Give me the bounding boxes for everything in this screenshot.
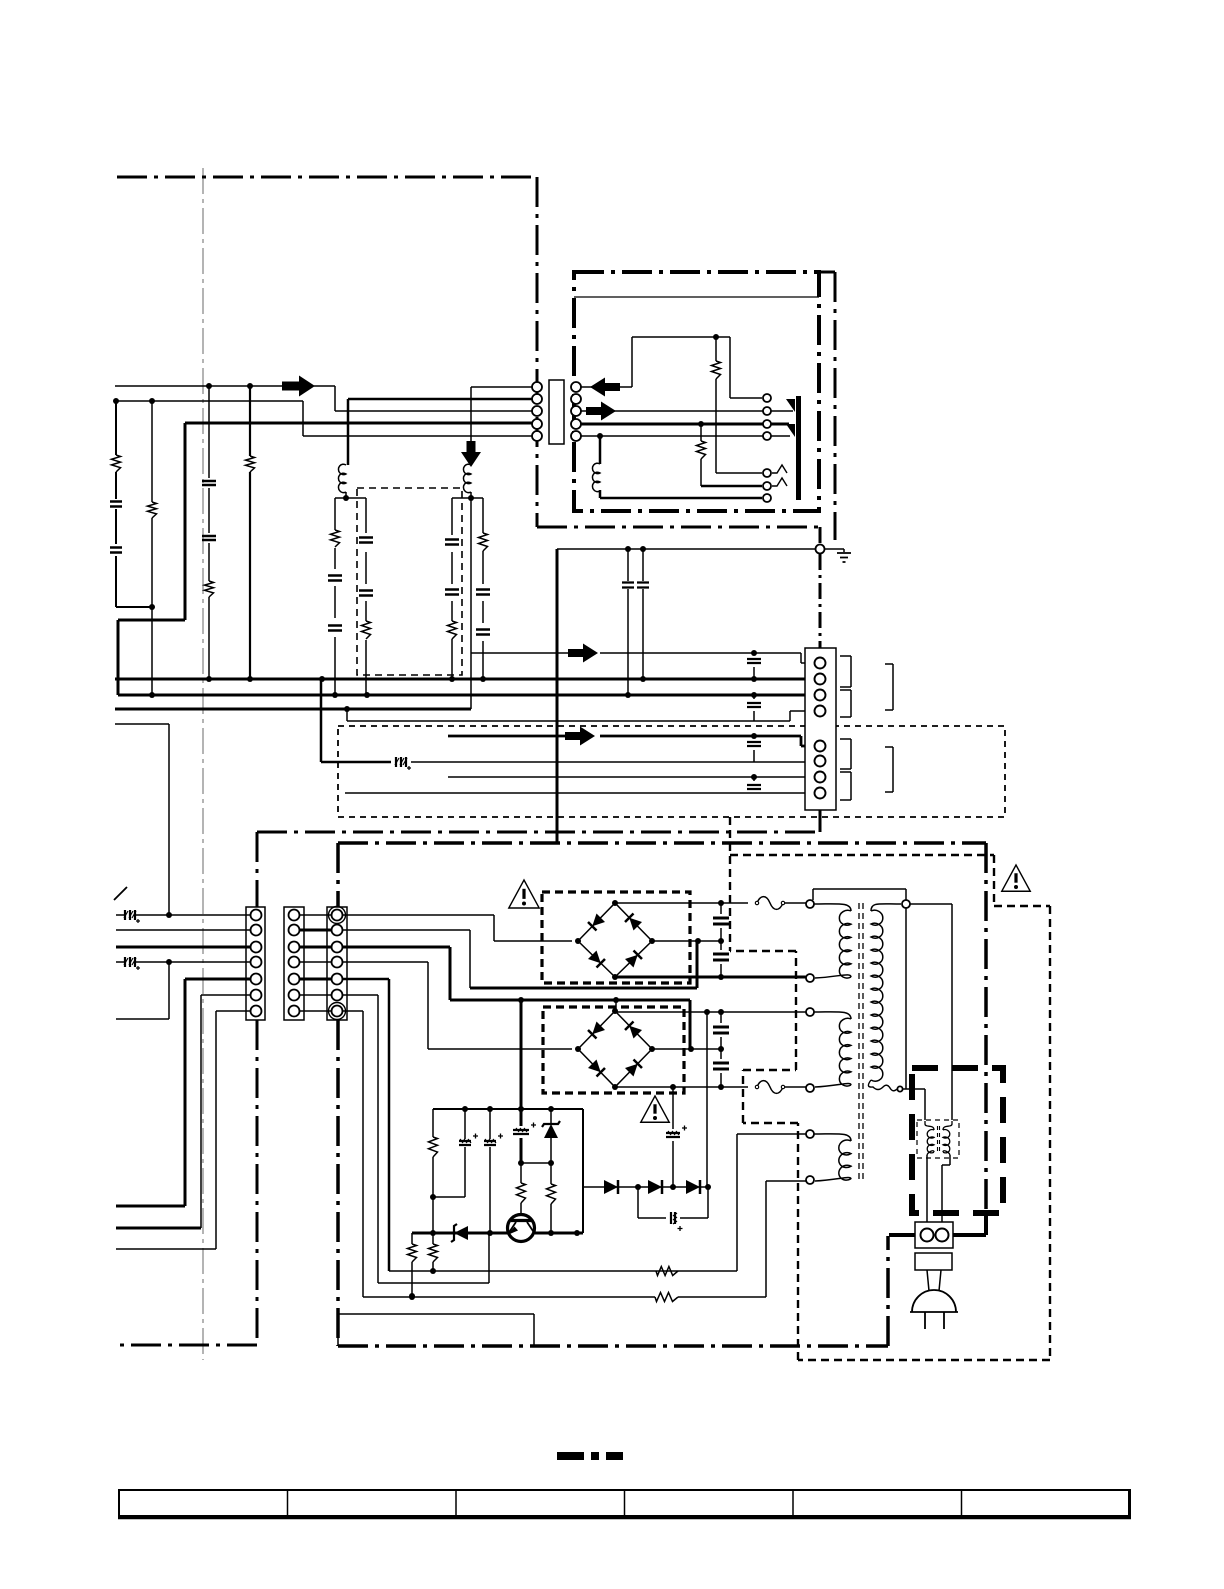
row1271 resistor [656,1267,678,1276]
smoothing cap C1b [713,954,729,960]
reg cap C4 [484,1141,496,1145]
filter2 inductor L2 [463,464,471,492]
reg emitter resistor [547,1184,556,1204]
transistor Q1 [508,1215,535,1242]
bridge1 diode TR [625,914,642,931]
bridge1 diode BL [588,951,605,968]
primary3 winding [814,1134,851,1141]
secondary to isolation transformer [906,1089,925,1121]
primary1 terminals [806,900,814,908]
row A coupling cap [747,659,761,663]
mid rail dots [430,1230,436,1236]
rail junction dots [462,1106,468,1112]
cap C1 dots [718,900,724,906]
aux feed x707 [706,1012,708,1187]
power board inner dash-dot border [338,843,986,1346]
dashed interconnect pipe [730,817,1050,1360]
smoothing cap C1 wire [720,903,722,977]
secondary return wire [897,908,906,1089]
main board outer dash-dot border [116,832,820,1345]
bottom tongue wire [338,1314,534,1345]
reg lower resistor RB wire [432,1233,434,1271]
bus C y695 thick [118,694,814,697]
secondary winding [871,904,901,911]
bridge1 fuse F1 [757,897,783,910]
tuner header line [574,296,819,298]
diode D3 [686,1180,700,1194]
smoothing cap C1a [713,918,729,924]
reg junction [430,1194,436,1200]
reg resistor R1 [429,1137,438,1157]
filter1 junction [343,495,349,501]
CN2 bracket pins7-8 [840,772,851,800]
row D coupling cap [747,703,761,707]
tuner row pin4 thick [581,423,789,426]
jack open contacts [763,394,771,402]
capacitor 2 on x116 [110,548,122,553]
plug dome [910,1290,958,1312]
filter1 cap left2 [328,626,342,631]
AC connector left lead thick [889,1233,915,1237]
row A wire [471,653,814,663]
bridge1 + output row [615,902,748,904]
smoothing cap C2b [713,1063,729,1069]
row G wire [448,776,814,778]
row F wire [321,679,391,762]
top-right block inner dash-dot box [574,272,819,511]
CN4-CN5 links [300,915,331,1011]
left feed row5 wire thick [116,979,250,1206]
row4 junction [166,959,172,965]
CN1 left pins [532,382,542,392]
bridge2 diamond [578,1011,652,1087]
capacitor 2 on x209 [202,536,216,540]
left feed row3 wire thick [116,946,250,949]
mid rail zener ZD2 [454,1226,468,1240]
dash-dot drop to earth node [819,527,822,648]
row E junction [751,733,757,739]
bus B junction dots [206,676,212,682]
inter-board connector CN1 body [549,380,564,444]
feedback row y1297 [363,1181,806,1297]
diode rail dots [635,1184,641,1190]
filter2 cap left1 [445,540,459,545]
reg cap C3 [459,1141,471,1145]
cap drop x643 [642,549,644,679]
filter2 junction [468,495,474,501]
tuner loop wire [581,337,762,398]
switch lever [114,887,127,900]
filter2 resistor left [448,621,457,639]
reg resistor R1 wire [432,1109,434,1233]
AC connector body [915,1222,953,1248]
CN2 bracket pins3-4 [840,690,851,717]
bridge1 diode BR [625,951,642,968]
spring contact upper [772,465,787,473]
filter1 wire [335,492,366,695]
bridge2 dashed box [543,1007,684,1093]
CN2 bottom lead [819,810,822,832]
flow arrow left pin1 [590,378,620,397]
CN3 pins [251,910,262,921]
tuner resistor R-a wire [716,337,762,473]
row E wire thick [448,736,814,746]
thick drop wire x557 [556,549,559,843]
harness bracket lower [885,747,893,792]
filter1 cap right2 [359,591,373,596]
row6 stub thick [116,1227,201,1230]
left feed row7 wire [116,1011,250,1249]
row F bead [396,757,406,767]
reg base resistor wire [520,1163,522,1215]
row D coupling cap wire [753,695,755,721]
junction dots top wires [113,398,119,404]
reg main cap C5 wire [520,1109,523,1163]
CN2 bracket pins1-2 [840,656,851,687]
left feed row1 bead [125,910,135,920]
row H wire [345,792,814,794]
connector CN3 body [246,907,265,1020]
CN4 pins [289,910,300,921]
filter1 cap right1 [359,538,373,543]
footer revision table [119,1490,1130,1516]
bus C junction dots [149,692,155,698]
filter2 wire [452,441,483,709]
left vertical dash-dot border x537 [536,177,539,527]
resistor chain x250: wire [249,386,251,679]
reg lower resistor RB [429,1244,438,1262]
top dash-dot border [117,176,537,179]
reg zener ZD1 [544,1124,558,1138]
fuse1 to transformer [785,902,806,904]
dash-dot border below block y527 [537,526,818,529]
filter1 inductor L1 [338,464,346,492]
power feed row5 thick [342,979,389,1271]
CN2 pins [815,658,826,669]
feed row7 wire [342,1011,363,1297]
primary1 winding [814,904,851,911]
rail right vertical [582,1109,584,1233]
left feed row1 wire [116,914,250,916]
harness bracket upper [885,664,893,710]
bridge2 row junctions [704,1009,710,1015]
transformer top band [813,889,906,900]
filter2 cap right1 [476,590,490,595]
feedback row y1271 [389,1134,806,1271]
primary2 terminals [806,1008,814,1016]
row A coupling cap wire [753,653,755,679]
secondary bottom node [897,1086,902,1091]
thick wire to pin2 [348,399,533,465]
bridge1 - output row thick [615,976,806,979]
ground symbol [837,553,851,562]
plug prongs [925,1312,944,1329]
tuner inductor L3 [592,463,600,491]
bridge2 AC return row [652,1048,721,1050]
row A junction [751,650,757,656]
regulator feed thick [520,1000,523,1109]
earth node [816,545,825,554]
flow arrow row E [565,727,595,746]
cap C2 dots [718,1046,724,1052]
diode D2 [648,1180,662,1194]
junction 1297 [409,1293,415,1299]
regulator top rail [433,1108,583,1110]
gray reference dash-dot line [202,168,204,1360]
tuner resistor R-b [697,441,706,459]
bridge feed row2 [342,930,470,988]
row1 junction [166,912,172,918]
regulator mid rail thick [412,1232,583,1235]
reg link y1163 [521,1162,551,1164]
isolation primary [925,1121,934,1130]
bridge2 diode TL [588,1022,605,1039]
component chain x116: wire [116,401,152,607]
left feed row6 wire [201,995,250,1228]
flow arrow down to filter2 [461,441,481,467]
row1271 dots [430,1268,436,1274]
filter1 resistor right [362,621,371,639]
reg cap C4 wire [489,1109,491,1233]
bridge1 AC junction [695,938,701,944]
connector CN2 body [805,648,836,810]
signal wire B (to pin5) [115,401,533,436]
sub-board dashed box [357,488,462,675]
filter2 resistor right [479,533,488,551]
tuner resistor R-a [712,361,721,379]
wire pin1 to filter2 drop [471,387,533,441]
left feed row2 wire [116,929,250,931]
aux feed x673 wire [672,1087,674,1187]
resistor on x116 [112,455,121,472]
legend dash-dot sample [557,1452,584,1460]
flow arrow row A [568,644,598,663]
row3 junction dots [518,997,524,1003]
row G coupling cap [747,785,761,789]
resistor on x209 [205,581,214,597]
filter2 cap right2 [476,630,490,635]
reg lower resistor RA [408,1244,417,1262]
diode loop wire [638,1187,708,1218]
filter1 cap left1 [328,576,342,581]
bridge1 dashed box [542,892,690,983]
isolation core [938,1126,940,1152]
secondary terminal [902,900,910,908]
bridge feed row1 [342,915,572,941]
row D junction [344,706,350,712]
row G coupling cap wire [753,777,755,793]
filter2 cap left2 [445,590,459,595]
bridge feed row4 [342,962,572,1049]
smoothing cap C2 wire [720,1012,722,1087]
bridge2 top vertex wire [616,1000,806,1012]
reg cap C3 wire [464,1109,466,1197]
bus B y679 thick [115,678,814,681]
junction dot x152/x116 [149,604,155,610]
connector CN4 body [284,907,304,1020]
CN2 bracket pins5-6 [840,739,851,769]
connector CN5 body [327,907,347,1020]
fuse2 to transformer [785,1086,806,1088]
shield box thick dashed [912,1068,1003,1213]
tuner junction pin5 [597,433,603,439]
bridge2 diode BR [625,1060,642,1077]
jack contact triangles [786,399,795,412]
resistor chain x152: wire [151,401,153,695]
bridge1 vertex dots [575,938,581,944]
reg base resistor [517,1183,526,1203]
bridge2 vertex dots [575,1046,581,1052]
reg main cap C5 [513,1130,529,1134]
bridge1 AC return row [652,940,721,942]
bridge2 - output row [615,1086,748,1088]
resistor on x250 [246,456,255,472]
bridge1 diamond [578,903,652,977]
tuner inductor wire [600,436,762,498]
row G junction [751,774,757,780]
bridge2 fuse F2 [757,1081,783,1094]
diode D1 [604,1180,618,1194]
bridge2 diode TR [625,1022,642,1039]
warning triangle 3 [1002,865,1031,891]
bridge2 - junction [670,1084,676,1090]
isolation leads to plug connector [927,1155,950,1222]
row E coupling cap wire [753,736,755,762]
left feed row4 bead [125,957,135,967]
capacitor 1 on x209 [202,481,216,485]
junction dots y549 [625,546,631,552]
antenna jack bar [796,396,801,500]
row D wire [347,709,814,721]
earth wire y549 [557,549,844,552]
spring contact lower [772,478,787,486]
plug housing [915,1253,952,1270]
bridge feed row3 thick [342,947,690,1049]
stub wire y724 [115,724,169,915]
row E coupling cap [747,742,761,746]
transformer core [859,903,863,1183]
cap drop x628 [627,549,629,695]
flow arrow right pin3 [586,402,616,421]
row4 return wire [116,962,169,1019]
bridge2 diode BL [588,1060,605,1077]
smoothing cap C2a [713,1027,729,1033]
reg zener ZD1 wire [550,1109,552,1163]
left feed row4 wire [116,961,250,963]
reg link dots [518,1160,524,1166]
CN1 right pins [571,382,581,392]
cap x628 [622,583,634,588]
tuner resistor R-b wire [700,424,702,486]
warning triangle 1 [509,880,539,908]
CN5 keyed pin rings [329,907,346,924]
reg emitter resistor wire [550,1163,552,1233]
signal wire A (to pin3) [115,386,533,411]
tuner row pin5 [581,435,790,437]
CN5 pins [332,910,343,921]
video out dashed box [338,726,1005,817]
row1297 resistor [655,1293,678,1302]
capacitor 1 on x116 [110,502,122,507]
isolation transformer box [917,1120,959,1158]
tuner loop junction [713,334,719,340]
bridge1 diode TL [588,914,605,931]
capacitor chain x209: wire [208,386,210,679]
flow arrow right on wire A [282,376,315,397]
reg link y1197 [433,1196,465,1198]
primary2 winding [814,1012,851,1019]
tuner junction pin4 [698,421,704,427]
cap x643 [637,583,649,588]
link row y1283 [378,1233,489,1283]
tuner row pin3 [581,410,793,412]
resistor on x152 [148,502,157,518]
feed row6 wire [342,995,378,1283]
loop cap C+ small [671,1212,683,1231]
transformer right feed [910,904,952,1121]
AC connector right lead thick [953,1212,986,1235]
primary3 terminals [806,1130,814,1138]
isolation secondary [943,1121,952,1130]
thick bus wire to pin4 [118,423,533,695]
aux cap C+ x673 [666,1133,680,1137]
top-right block outer dash-dot [819,272,835,540]
plug neck [927,1270,941,1291]
bus 709 thick [115,708,471,711]
warning triangle 2 [641,1096,670,1122]
diode rail wire [583,1109,708,1187]
AC connector pins [921,1229,934,1242]
filter1 resistor left [331,530,340,547]
reg lower resistor RA wire [411,1233,413,1296]
